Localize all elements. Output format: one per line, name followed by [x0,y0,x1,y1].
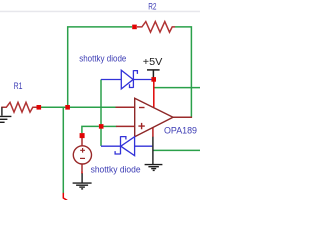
ground at current source [73,173,92,189]
wire ground net to right edge [153,149,200,151]
wire current source bottom pin [81,164,83,172]
wire inverting input stub [116,106,135,108]
svg-text:shottky diode: shottky diode [79,54,126,65]
op-amp U1 OPA189 [135,98,173,136]
schottky diode D1 (top, pointing right) [101,70,152,89]
junction node2 (plus input) [99,124,104,129]
svg-text:R2: R2 [148,1,156,12]
resistor R1 [1,102,36,112]
svg-text:OPA189: OPA189 [164,126,197,137]
svg-text:+5V: +5V [143,57,163,68]
minus input sign [139,107,145,109]
ground at op-amp V- [145,137,163,171]
schottky diode D2 (bottom, pointing left) [101,136,152,156]
wire output stub [173,116,192,118]
junction at R1 right [37,105,42,110]
ground at R1 [0,107,11,122]
wire non-inverting input stub [116,125,134,127]
terminal square current source [80,133,85,138]
plus input sign [138,123,144,129]
wire red tip of down stub [63,193,67,201]
svg-text:R1: R1 [14,81,23,92]
wire stub above ground at current source [81,172,83,174]
junction at R2 left [132,25,137,30]
current source I1 [73,146,91,164]
wire V- pin stub [152,127,154,137]
wire +5V rail to right edge [155,87,201,89]
svg-text:shottky diode: shottky diode [91,165,141,176]
wire diode clamp vertical [100,80,102,146]
wire node1 up-branch to R2 [68,27,133,107]
power +5V bar symbol [147,70,160,78]
wire V+ pin stub [153,82,155,108]
wire node2 to plus input [103,125,116,127]
resistor R2 [137,22,175,33]
divider line [0,11,200,13]
wire node1 horizontal R1-to-opamp [41,106,116,108]
wire R2-right down to output [175,27,192,117]
junction +5V node [151,77,156,82]
wire current source to node2 [82,126,99,133]
junction node1 branch [65,105,70,110]
wire node1 long down stub [62,107,64,193]
wire current source top pin [81,138,83,146]
